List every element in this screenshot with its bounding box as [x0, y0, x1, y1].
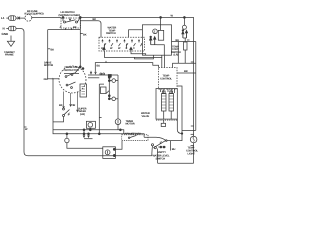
cam contacts (bold arrows) [150, 38, 152, 45]
wire stub BU at water level switch [170, 141, 172, 151]
lid switch left stub to L1 wire [62, 17, 64, 21]
wire label W tick on neutral [24, 126, 27, 128]
water temp contact group 3 [116, 40, 118, 43]
wire B staircase (notch) [135, 55, 154, 59]
wire A staircase [131, 51, 146, 55]
wire label tick right vertical lower [191, 125, 194, 127]
right main vertical from L1 [193, 17, 195, 136]
cam wire to staircase [157, 45, 164, 56]
svg-text:BU: BU [97, 65, 101, 68]
pause to water level wire [148, 137, 166, 140]
valve right lead to pause area [177, 119, 182, 133]
long center vertical [117, 75, 119, 119]
wire label tick [105, 61, 107, 63]
lid switch lower stubs [65, 28, 67, 30]
svg-text:(LR): (LR) [80, 113, 85, 116]
left inner vertical down to bottom bus [53, 79, 144, 138]
svg-text:24A: 24A [44, 78, 49, 81]
bold terminal arrow right [130, 47, 132, 51]
wire to motor top [79, 17, 81, 66]
temp control to valve stubs [160, 89, 162, 92]
temp control light [190, 136, 197, 143]
wire from contact cluster down to bus B [99, 84, 104, 134]
wire M to timer motor box [67, 143, 103, 149]
water temp contact group 5 [131, 40, 133, 43]
svg-text:VALVE: VALVE [142, 115, 150, 118]
lid switch right stub [78, 17, 81, 21]
svg-text:W: W [110, 47, 113, 50]
svg-text:LIGHT: LIGHT [188, 153, 196, 156]
stubs down to temp control [161, 57, 163, 67]
svg-text:FRAME: FRAME [5, 54, 14, 57]
bus from temp switch to cam box (staircase) [104, 51, 161, 57]
water temp contact group 4 [124, 40, 126, 43]
svg-text:CONTROL: CONTROL [160, 77, 173, 80]
timer motor box bottom [103, 147, 116, 159]
water temp switch dashed box [99, 37, 144, 51]
cam switch box (solid) [142, 25, 171, 55]
svg-text:SWITCH: SWITCH [106, 32, 116, 35]
wire cam box to right vertical [172, 41, 196, 43]
svg-text:C: C [133, 47, 135, 50]
pause switch [128, 137, 130, 139]
lid switch contacts [64, 21, 66, 23]
motor start capacitor rect [80, 84, 87, 97]
valve terminals [163, 89, 165, 93]
drop from L1 into cam box [160, 17, 162, 30]
cam inner rect [158, 30, 163, 40]
wire to motor left [47, 30, 49, 79]
svg-text:SWITCH: SWITCH [156, 157, 166, 160]
svg-text:MOTOR: MOTOR [44, 64, 53, 67]
svg-text:IF SO EQUIPPED: IF SO EQUIPPED [25, 12, 44, 15]
wire cluster to temp control [95, 63, 158, 72]
solenoid coil 2 [169, 94, 174, 112]
motor contacts lower [66, 84, 68, 86]
circled cam symbol [153, 29, 158, 34]
wires from timer motor box [114, 141, 122, 150]
wire water temp switch to cam box [129, 30, 143, 37]
connector P1 (line cord plug L1) [9, 16, 17, 21]
bottom neutral bus [28, 155, 152, 157]
small circled component box [86, 121, 95, 128]
solenoid coil circle 1 [112, 79, 116, 83]
ground lead [10, 36, 12, 42]
svg-text:BK: BK [83, 33, 87, 36]
bus under lid switch [48, 29, 81, 31]
junction arrows between buses [83, 130, 85, 134]
drive motor dashed circle [59, 66, 86, 93]
solenoid coil 1 [162, 94, 167, 112]
relay bracket [101, 87, 107, 94]
svg-text:BU: BU [176, 39, 180, 42]
water temp contact group 1 [102, 40, 104, 43]
svg-text:L1: L1 [1, 16, 5, 20]
wire L1 to fuse [16, 17, 25, 19]
timer motor symbol bar [107, 151, 109, 154]
water level switch [151, 144, 153, 146]
svg-text:(SHOWN CLOSED): (SHOWN CLOSED) [59, 14, 81, 17]
timer cam assembly right [182, 25, 186, 29]
lid switch dashed box [61, 18, 81, 28]
svg-text:GND: GND [2, 32, 10, 36]
wire super wash down-left [53, 117, 64, 122]
center verticals: coil feed [108, 75, 110, 99]
fuse F1 (dashed circle) [25, 14, 32, 21]
right vertical from temp control to switch [166, 86, 182, 141]
water temp contact group 6 [138, 40, 140, 43]
svg-text:BU: BU [172, 148, 176, 151]
motor contacts upper [65, 76, 67, 78]
svg-text:N: N [3, 27, 5, 31]
splice X mark [18, 17, 20, 20]
water level switch contact bar [158, 146, 166, 148]
solenoid coil circle 2 [112, 97, 116, 101]
wire label tick right vertical upper [191, 61, 194, 63]
timer motor circle (large) [115, 119, 121, 125]
stub BU wire to temp control [177, 42, 179, 64]
bold terminal arrow left [103, 47, 105, 51]
svg-text:BK: BK [51, 48, 55, 51]
connector P2 (line cord plug N) [9, 26, 17, 31]
inner bus A [53, 130, 124, 134]
wire N down left side (neutral bus) [16, 29, 28, 156]
L1 main wire across top [80, 16, 193, 18]
svg-text:OR: OR [72, 104, 76, 107]
right secondary vertical [195, 42, 197, 131]
wire motor to timer contacts [88, 74, 118, 76]
wire fuse to lid switch [32, 16, 61, 18]
junction dot main line [79, 17, 81, 19]
svg-text:BR: BR [184, 70, 188, 73]
motor right start switch [90, 71, 92, 74]
water temp contact group 2 [109, 40, 111, 43]
valve lower connector [161, 123, 165, 126]
small circled M [65, 138, 69, 142]
temp control right wires [177, 72, 196, 74]
super wash switch [63, 108, 65, 110]
cam resistor element [184, 42, 188, 50]
black terminal block [108, 75, 111, 78]
svg-text:MOTOR: MOTOR [126, 123, 135, 126]
svg-text:W: W [118, 47, 121, 50]
svg-text:W: W [25, 128, 28, 131]
svg-text:(LR): (LR) [174, 54, 179, 57]
svg-text:BK: BK [73, 26, 77, 29]
temp control dashed box [159, 68, 178, 90]
pause lid dashed box [122, 135, 148, 141]
lid switch second wire to water temp switch [81, 21, 102, 38]
bottom right return [158, 162, 194, 164]
svg-text:Z: Z [154, 31, 156, 34]
motor leads down [63, 92, 65, 109]
svg-text:EMPTY: EMPTY [158, 151, 167, 154]
water valve box [156, 89, 177, 120]
wire right area into temp control [173, 63, 196, 67]
svg-text:BK: BK [59, 104, 63, 107]
svg-text:C: C [126, 47, 128, 50]
ground symbol (chassis arrow) [7, 41, 14, 46]
